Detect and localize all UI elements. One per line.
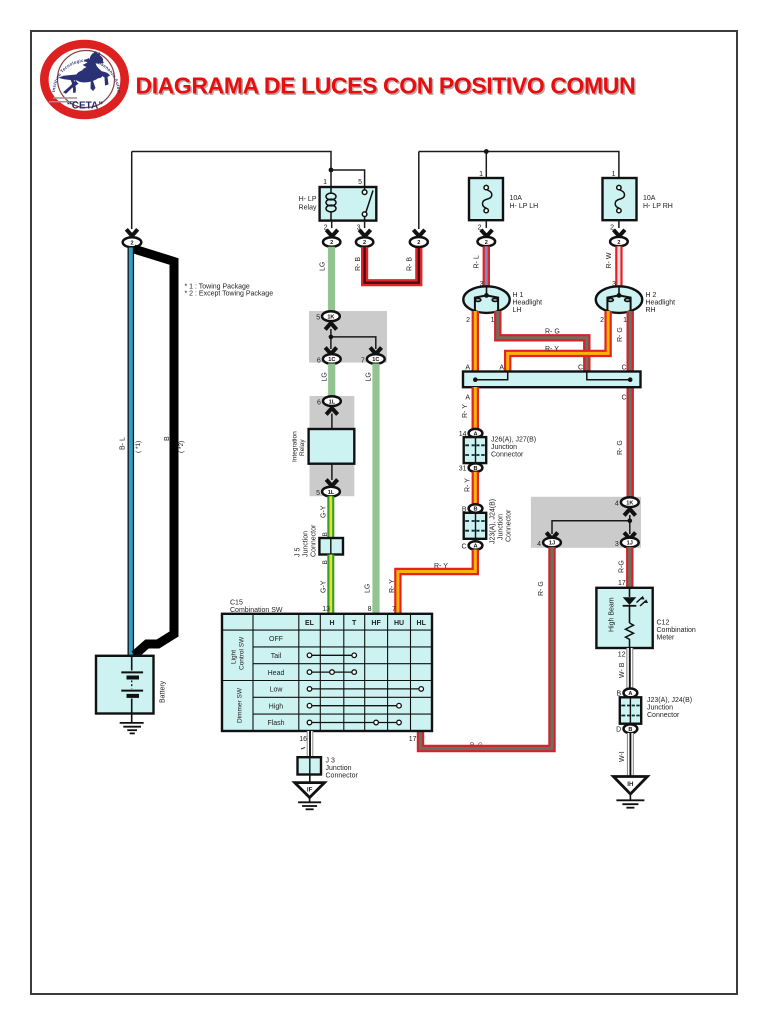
- svg-text:OFF: OFF: [269, 636, 283, 643]
- svg-text:C: C: [461, 543, 466, 550]
- svg-text:C: C: [621, 395, 626, 402]
- svg-text:1K: 1K: [626, 500, 633, 506]
- svg-text:Junction: Junction: [498, 514, 505, 540]
- ground IH hatch: [616, 794, 644, 808]
- connector oval B pin31: [469, 463, 483, 472]
- junction connector J5: [319, 538, 343, 555]
- svg-text:Junction: Junction: [303, 531, 310, 557]
- wire R-G 1J3 to C12 pin 17: [626, 547, 633, 588]
- svg-text:H 2: H 2: [646, 292, 657, 299]
- wire G-Y J5 to combination SW pin 13: [327, 555, 334, 614]
- svg-text:7: 7: [361, 357, 365, 364]
- svg-text:R- Y: R- Y: [389, 579, 396, 593]
- connector oval B (second, bottom): [624, 724, 638, 733]
- svg-text:High Beam: High Beam: [609, 597, 616, 632]
- wire R-Y headlight RH pin2 to bar A: [508, 311, 608, 372]
- svg-text:H- LP: H- LP: [299, 196, 317, 203]
- ground IF hatch: [298, 798, 321, 810]
- svg-text:Connector: Connector: [647, 712, 680, 719]
- junction connector J23(A) J24(B): [464, 513, 487, 539]
- arrow up into 1L6: [326, 408, 337, 415]
- fuse LH pin 2 lead: [485, 220, 487, 228]
- svg-text:H 1: H 1: [513, 292, 524, 299]
- connector oval 2 (R-B top): [410, 237, 428, 247]
- svg-text:2: 2: [485, 240, 488, 246]
- wire R-Y J26 to J23: [472, 472, 479, 505]
- svg-text:2: 2: [617, 240, 620, 246]
- svg-text:Low: Low: [270, 687, 284, 694]
- svg-text:Dimmer SW: Dimmer SW: [237, 687, 244, 723]
- column header labels: [305, 620, 427, 627]
- svg-text:C15: C15: [230, 600, 243, 607]
- svg-text:1C: 1C: [372, 357, 379, 363]
- connector oval A (J23/J24 second, top): [624, 689, 638, 698]
- wire R-Y headlight LH pin2 down through bar: [472, 311, 479, 429]
- svg-text:HL: HL: [417, 620, 427, 627]
- svg-text:7: 7: [392, 606, 396, 613]
- svg-text:2: 2: [363, 240, 366, 246]
- svg-text:4: 4: [537, 541, 541, 548]
- connector oval 1K pin5: [322, 311, 340, 321]
- switch contacts Low row: [307, 687, 423, 692]
- ground IH triangle: [613, 777, 647, 795]
- connector oval A (J23 bottom): [469, 541, 483, 550]
- arrow up into 1K: [325, 323, 336, 330]
- junction dot relay feed: [329, 168, 334, 173]
- svg-text:Headlight: Headlight: [513, 300, 543, 307]
- svg-text:1: 1: [323, 179, 327, 186]
- row labels: [267, 636, 284, 727]
- wire into integration relay: [331, 414, 333, 430]
- wire LG 1C6 to 1L6: [328, 364, 335, 397]
- svg-text:B: B: [628, 727, 632, 733]
- svg-text:Control SW: Control SW: [239, 636, 246, 670]
- svg-text:6: 6: [317, 399, 321, 406]
- svg-text:1K: 1K: [327, 314, 334, 320]
- svg-text:1L: 1L: [328, 490, 335, 496]
- CETA logo curved institute text: [55, 62, 118, 93]
- svg-text:Connector: Connector: [491, 452, 524, 459]
- svg-text:A: A: [465, 395, 470, 402]
- integration relay box: [309, 429, 355, 464]
- ground (battery): [120, 714, 144, 734]
- svg-text:13: 13: [322, 606, 330, 613]
- arrow into 1J pin3: [624, 533, 635, 540]
- wire left drop to connector: [131, 152, 133, 230]
- wire W-B C12 to J23: [626, 648, 633, 689]
- wire R-G headlight LH pin1 to bar C: [498, 311, 587, 372]
- svg-text:R- B: R- B: [355, 257, 362, 271]
- svg-text:1: 1: [491, 317, 495, 324]
- svg-text:J23(A), J24(B): J23(A), J24(B): [490, 499, 497, 544]
- svg-text:G-Y: G-Y: [320, 580, 327, 593]
- arrow into 1L5: [326, 480, 337, 487]
- svg-text:HU: HU: [394, 620, 404, 627]
- switch contacts High row: [307, 703, 401, 708]
- svg-text:R- B: R- B: [407, 257, 414, 271]
- connector oval 2 (relay pin2): [323, 237, 340, 247]
- wire J3 to ground: [309, 775, 311, 784]
- svg-text:* 2 : Except Towing Package: * 2 : Except Towing Package: [185, 291, 274, 298]
- svg-text:Light: Light: [231, 650, 238, 664]
- svg-text:2: 2: [130, 241, 133, 247]
- arrow up into 1K pin4: [624, 509, 635, 516]
- wire pin16 to J3: [307, 731, 314, 758]
- svg-text:10A: 10A: [643, 195, 656, 202]
- svg-text:17: 17: [618, 580, 626, 587]
- svg-text:5: 5: [316, 490, 320, 497]
- svg-text:R- Y: R- Y: [462, 404, 469, 418]
- switch contacts Head row: [307, 670, 356, 675]
- svg-text:R- Y: R- Y: [434, 563, 448, 570]
- gray block 1K/1J: [531, 497, 641, 548]
- CETA logo inner thin circle: [58, 51, 115, 108]
- svg-text:HF: HF: [371, 620, 381, 627]
- junction dot fuse LH feed: [484, 149, 489, 154]
- CETA logo speed lines: [49, 98, 77, 102]
- svg-text:R- Y: R- Y: [545, 346, 559, 353]
- svg-text:Tail: Tail: [271, 653, 282, 660]
- svg-text:16: 16: [299, 736, 307, 743]
- svg-text:EL: EL: [305, 620, 315, 627]
- svg-text:LH: LH: [513, 307, 522, 314]
- combination switch C15 table: [222, 614, 432, 731]
- C12 combination meter box: [596, 588, 652, 648]
- svg-text:LG: LG: [322, 372, 329, 381]
- svg-text:D: D: [616, 727, 621, 734]
- svg-text:1: 1: [623, 317, 627, 324]
- svg-text:R- G: R- G: [538, 581, 545, 596]
- svg-text:6: 6: [317, 357, 321, 364]
- wire W-I to ground: [627, 733, 634, 777]
- battery box: [96, 656, 154, 714]
- wire 1K to 1C links: [331, 329, 376, 349]
- fuse 10A H-LP RH: [603, 178, 637, 220]
- svg-text:Junction: Junction: [491, 444, 517, 451]
- wire drop to R-B oval: [418, 152, 420, 230]
- wire out of integration relay: [331, 464, 333, 480]
- wire LG relay pin2 down: [328, 247, 335, 312]
- gray block integration relay: [310, 396, 355, 496]
- svg-text:( *1): ( *1): [135, 441, 142, 453]
- wire LG 1C7 to combination SW pin 8: [372, 364, 379, 614]
- svg-text:Battery: Battery: [160, 680, 167, 703]
- svg-text:1J: 1J: [549, 541, 555, 547]
- svg-text:“CETA”: “CETA”: [67, 101, 103, 112]
- battery symbol: [121, 656, 143, 714]
- junction dot (1K/1C): [329, 335, 334, 340]
- arrow into 1C pin7: [370, 348, 381, 355]
- svg-text:Combination: Combination: [657, 627, 696, 634]
- svg-text:R-G: R-G: [619, 560, 626, 573]
- wire R-W to headlight RH: [615, 246, 622, 288]
- svg-text:Junction: Junction: [326, 765, 352, 772]
- svg-text:B: B: [322, 532, 329, 536]
- gray connector block 1K/1C: [309, 311, 387, 363]
- svg-text:IH: IH: [627, 781, 634, 788]
- svg-text:5: 5: [316, 315, 320, 322]
- connector oval B (J23 top): [469, 504, 483, 513]
- connector oval 1J pin3: [621, 538, 639, 548]
- svg-text:1C: 1C: [328, 357, 335, 363]
- svg-text:1L: 1L: [329, 399, 336, 405]
- switch contacts Tail row: [307, 653, 356, 658]
- svg-text:Junction: Junction: [647, 705, 673, 712]
- connector oval 1L pin6: [323, 396, 341, 406]
- svg-text:10A: 10A: [510, 195, 523, 202]
- junction connector J3: [298, 757, 322, 774]
- svg-text:12: 12: [618, 652, 626, 659]
- connector oval 2 (relay pin3): [356, 237, 373, 247]
- svg-text:J26(A), J27(B): J26(A), J27(B): [491, 437, 536, 444]
- svg-text:W-I: W-I: [619, 751, 626, 762]
- svg-text:W- B: W- B: [619, 662, 626, 678]
- svg-text:H- LP RH: H- LP RH: [643, 203, 673, 210]
- svg-text:Headlight: Headlight: [646, 300, 676, 307]
- wire R-G 1J4 to combination SW pin 17: [421, 547, 553, 749]
- svg-text:Relay: Relay: [299, 205, 317, 212]
- wire R-Y to combination SW pin 7: [398, 550, 475, 614]
- svg-text:* 1 : Towing Package: * 1 : Towing Package: [185, 284, 250, 291]
- svg-text:31: 31: [459, 466, 467, 473]
- svg-text:Connector: Connector: [311, 524, 318, 557]
- arrow into 1C pin6: [325, 348, 336, 355]
- arrow into left connector: [126, 229, 137, 236]
- arrow into oval 2 (relay pin3): [359, 230, 370, 236]
- wire R-B U-shape: [365, 247, 419, 283]
- tiny dash label on pin16 wire: [301, 748, 305, 750]
- svg-text:RH: RH: [646, 307, 656, 314]
- svg-text:Flash: Flash: [267, 720, 284, 727]
- svg-text:17: 17: [409, 736, 417, 743]
- svg-text:R- W: R- W: [606, 252, 613, 268]
- connector oval A pin14: [469, 429, 483, 438]
- connector oval 1L pin5: [322, 487, 340, 497]
- relay switch contacts: [362, 187, 373, 221]
- headlight H2 RH: [596, 286, 642, 313]
- ground IF triangle: [295, 783, 325, 798]
- svg-text:J 5: J 5: [295, 548, 302, 557]
- svg-text:LG: LG: [320, 262, 327, 271]
- junction dot (1J): [628, 518, 633, 523]
- junction connector J23(A) J24(B) second: [620, 697, 641, 723]
- connector oval 1J pin4: [543, 538, 561, 548]
- svg-text:2: 2: [466, 317, 470, 324]
- svg-text:LG: LG: [365, 584, 372, 593]
- svg-text:R- G: R- G: [545, 329, 560, 336]
- svg-text:3: 3: [615, 541, 619, 548]
- junction bar connector: [463, 372, 641, 388]
- svg-text:T: T: [352, 620, 357, 627]
- svg-text:A: A: [473, 544, 477, 550]
- high beam LED symbol: [623, 588, 648, 648]
- svg-text:High: High: [269, 703, 284, 710]
- headlight H1 LH: [463, 286, 509, 313]
- connector oval 2 (battery feed): [123, 237, 142, 247]
- svg-text:Connector: Connector: [326, 773, 359, 780]
- svg-text:G-Y: G-Y: [320, 505, 327, 518]
- svg-text:R- Y: R- Y: [465, 478, 472, 492]
- connector oval 2 (fuse LH): [478, 237, 496, 246]
- connector oval 2 (fuse RH): [610, 237, 628, 246]
- connector oval 1K pin4: [621, 497, 639, 507]
- svg-text:5: 5: [358, 179, 362, 186]
- arrow into oval (R-B top): [413, 230, 424, 236]
- svg-text:R- G: R- G: [617, 440, 624, 455]
- switch contacts Flash row: [307, 720, 401, 725]
- svg-text:J23(A), J24(B): J23(A), J24(B): [647, 697, 692, 704]
- svg-text:2: 2: [330, 240, 333, 246]
- wire G-Y 1L5 to J5: [327, 496, 334, 538]
- svg-text:DIAGRAMA DE LUCES CON POSITIV: DIAGRAMA DE LUCES CON POSITIVO COMUN: [136, 73, 636, 99]
- wire relay pin1 / pin5 feed: [331, 170, 365, 187]
- arrow into 1J pin4: [546, 533, 557, 540]
- svg-text:J 3: J 3: [326, 758, 335, 765]
- wire fuse LH feed: [485, 152, 487, 179]
- svg-text:2: 2: [600, 317, 604, 324]
- wire R-G headlight RH pin1 down: [627, 311, 634, 497]
- svg-text:Head: Head: [268, 670, 285, 677]
- connector oval 1C pin6: [323, 354, 341, 364]
- svg-text:4: 4: [615, 501, 619, 508]
- svg-text:LG: LG: [366, 372, 373, 381]
- wire R-Y bar to J26 oval A: [472, 387, 479, 430]
- svg-text:H- LP LH: H- LP LH: [510, 203, 539, 210]
- wires 1K to 1J links: [552, 515, 630, 534]
- CETA logo outer red ring: [44, 44, 124, 115]
- relay coil: [326, 187, 336, 221]
- junction connector J26(A) J27(B): [464, 437, 487, 463]
- bar internal link right: [587, 372, 630, 380]
- fuse 10A H-LP LH: [469, 178, 503, 220]
- svg-text:C12: C12: [657, 620, 670, 627]
- svg-text:2: 2: [417, 240, 420, 246]
- connector oval 1C pin7: [367, 354, 385, 364]
- svg-text:B: B: [473, 466, 477, 472]
- svg-text:Relay: Relay: [299, 439, 306, 456]
- wire B (*2) thick black: [134, 249, 174, 655]
- svg-text:Connector: Connector: [506, 509, 513, 542]
- wire R-L to headlight LH: [483, 246, 490, 288]
- arrow into oval 2 (relay pin2): [326, 230, 337, 236]
- svg-text:IF: IF: [307, 787, 313, 794]
- arrow into oval (fuse RH): [614, 230, 625, 236]
- svg-text:B: B: [164, 436, 171, 441]
- svg-text:8: 8: [368, 606, 372, 613]
- arrow into oval (fuse LH): [481, 230, 492, 236]
- relay pin 3 lead: [364, 221, 366, 228]
- relay pin 2 lead: [331, 221, 333, 228]
- svg-text:R- G: R- G: [617, 327, 624, 342]
- svg-text:( *2): ( *2): [178, 441, 185, 453]
- wire top-right bus: [419, 152, 619, 179]
- wire B-L (*1) blue: [128, 248, 135, 657]
- relay H-LP box: [320, 187, 377, 221]
- svg-text:1J: 1J: [627, 541, 633, 547]
- svg-text:R- L: R- L: [474, 255, 481, 268]
- svg-text:H: H: [329, 620, 334, 627]
- svg-text:Meter: Meter: [657, 635, 676, 642]
- fuse RH pin 2 lead: [618, 220, 620, 228]
- CETA logo leaping horse: [59, 51, 111, 94]
- wire battery bus top-left horizontal: [132, 152, 331, 171]
- svg-text:B- L: B- L: [120, 437, 127, 450]
- bar internal link left: [475, 372, 507, 380]
- svg-text:Integration: Integration: [292, 431, 299, 462]
